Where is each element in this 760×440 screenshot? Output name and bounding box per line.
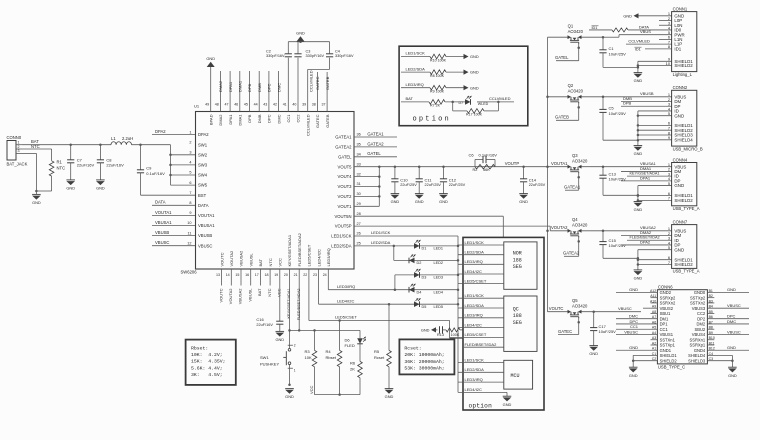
svg-text:GATEL: GATEL <box>367 151 381 156</box>
svg-text:C3: C3 <box>306 49 311 53</box>
wire CONN1 pin6 stub <box>659 38 672 40</box>
svg-text:GND: GND <box>727 345 736 350</box>
svg-text:DPA2: DPA2 <box>155 129 166 134</box>
svg-text:GND: GND <box>634 78 643 83</box>
wire CONN6 right pin B8 <box>707 328 714 330</box>
svg-text:DPA1: DPA1 <box>640 175 651 180</box>
wire CC1 pin41 to C2 <box>287 58 289 112</box>
wire FLED/BSET pin21 route <box>288 269 360 332</box>
ground GND below CONN6 right shields <box>728 367 737 378</box>
svg-text:22uF/25V: 22uF/25V <box>400 183 417 187</box>
svg-text:GATEC: GATEC <box>315 114 320 128</box>
svg-text:LED2/SDA: LED2/SDA <box>465 367 485 372</box>
capacitor C4 330pF/16V <box>326 42 354 58</box>
capacitor C12 22uF/25V <box>440 165 466 193</box>
svg-text:48: 48 <box>215 103 219 107</box>
svg-text:WLED: WLED <box>478 102 489 106</box>
node VCC below R3 <box>309 385 314 394</box>
svg-text:10uF/25V: 10uF/25V <box>609 111 627 116</box>
wire CONN6 right pin B1 <box>707 287 749 292</box>
svg-text:SHIELD2: SHIELD2 <box>660 358 678 363</box>
node DMA1 to CONN4 <box>621 166 672 172</box>
svg-text:14: 14 <box>226 273 230 277</box>
svg-text:22: 22 <box>303 273 307 277</box>
svg-text:DMC: DMC <box>727 319 736 324</box>
ground GND below C8 <box>96 180 105 191</box>
node DATA stub pin8 <box>152 200 196 206</box>
diode D4 LED4 <box>409 284 443 295</box>
ground GND below MCU block <box>503 396 512 407</box>
svg-text:D6: D6 <box>345 337 351 342</box>
svg-text:CONN6: CONN6 <box>658 285 673 290</box>
svg-text:22uF/25V: 22uF/25V <box>425 183 442 187</box>
svg-text:VOUTC: VOUTC <box>549 306 564 311</box>
wire CONN6 right pin B9 <box>707 329 749 334</box>
node FLED/BSET/ADA2 label below pin21 <box>297 289 301 321</box>
wire VOUT5N pin28 route <box>354 216 503 237</box>
svg-text:LED4/I2C: LED4/I2C <box>465 387 482 392</box>
ground flag LED1/SCK <box>464 54 479 59</box>
svg-text:VOUTC: VOUTC <box>219 252 224 266</box>
svg-text:GATEL: GATEL <box>555 55 569 60</box>
svg-text:31: 31 <box>357 182 361 186</box>
svg-text:LED4/I2C: LED4/I2C <box>316 249 321 266</box>
svg-text:D4: D4 <box>417 290 422 294</box>
svg-text:C2: C2 <box>266 49 271 53</box>
svg-text:D3: D3 <box>422 276 427 280</box>
node DPA1 to CONN4 <box>621 175 672 181</box>
svg-text:LED1/SCK: LED1/SCK <box>465 357 485 362</box>
svg-text:R9 100K: R9 100K <box>430 90 445 94</box>
svg-text:LED4/I2C: LED4/I2C <box>337 298 354 303</box>
node VOUTA2 <box>550 225 568 231</box>
node DPB to CONN2 <box>621 101 672 107</box>
svg-text:VBUSC: VBUSC <box>155 240 169 245</box>
svg-text:330pF/16V: 330pF/16V <box>266 54 285 58</box>
node GATEL stub pin34 <box>354 151 397 157</box>
node DPA1 stub top pin 47 <box>228 71 233 112</box>
connector CONN2 USB_MICRO_B <box>668 85 703 151</box>
wire CONN6 left pin A7 <box>616 314 657 319</box>
wire CONN6 right pin B7 <box>707 319 749 324</box>
svg-text:DP1: DP1 <box>660 322 669 327</box>
svg-text:GND: GND <box>519 199 528 204</box>
svg-text:8: 8 <box>189 201 191 205</box>
svg-text:LED2/SDA: LED2/SDA <box>406 66 426 71</box>
node VOUTA1 stub pin9 <box>152 210 196 216</box>
svg-text:VCC: VCC <box>277 288 282 297</box>
svg-text:5.6K: 4.4V;: 5.6K: 4.4V; <box>191 365 223 371</box>
svg-text:R7 2K: R7 2K <box>430 103 441 107</box>
svg-text:VBUSL: VBUSL <box>247 288 252 302</box>
ground GND below CONN0 <box>32 191 41 205</box>
resistor R1 NTC <box>49 160 65 192</box>
svg-text:GND: GND <box>470 85 479 90</box>
transistor Q1 AO3420 <box>548 24 584 44</box>
svg-text:3K: 4.5V;: 3K: 4.5V; <box>191 372 223 378</box>
node VBUSA1 stub pin10 <box>152 220 196 226</box>
svg-text:16: 16 <box>245 273 249 277</box>
svg-text:13: 13 <box>216 273 220 277</box>
svg-text:DPA1: DPA1 <box>228 81 233 92</box>
svg-text:FLED: FLED <box>345 343 355 348</box>
svg-text:C12: C12 <box>449 177 457 182</box>
svg-text:GATEA2: GATEA2 <box>367 141 384 146</box>
wire CONN6 right pin B4 <box>707 303 749 308</box>
wire option NOR LED2/SDA <box>458 250 504 255</box>
svg-text:VBUS1: VBUS1 <box>660 332 674 337</box>
svg-text:GND: GND <box>634 151 643 156</box>
wire CCLVMLED pin39 to C4 <box>308 58 330 112</box>
svg-text:2: 2 <box>189 140 191 144</box>
node NTC stub bottom pin 18 <box>267 269 272 297</box>
svg-text:GND: GND <box>634 276 643 281</box>
wire LED2/SDA pin25 <box>354 240 395 247</box>
svg-text:9: 9 <box>668 135 670 140</box>
svg-text:6: 6 <box>189 181 191 185</box>
svg-text:20K: 10000mAh;: 20K: 10000mAh; <box>404 352 444 358</box>
ground GND below SW1 <box>285 389 294 400</box>
svg-text:BST: BST <box>198 193 207 198</box>
svg-text:LED3/IRQ: LED3/IRQ <box>465 377 483 382</box>
option box 2 label <box>469 402 493 409</box>
svg-text:DM2: DM2 <box>697 322 706 327</box>
node VOUTC stub bottom pin 13 <box>218 269 223 303</box>
wire option NOR LED5/CSET <box>458 278 504 283</box>
svg-text:VBUS3: VBUS3 <box>692 306 706 311</box>
svg-text:10uF/25V: 10uF/25V <box>599 329 617 334</box>
svg-text:VBUSA2: VBUSA2 <box>238 288 243 305</box>
node VOUTP <box>505 161 520 166</box>
svg-text:R6: R6 <box>350 361 356 366</box>
connector CONN7 USB_TYPE_A <box>668 219 700 273</box>
svg-text:GND: GND <box>421 328 430 333</box>
svg-text:CC1: CC1 <box>630 324 639 329</box>
resistor R8 100K pulldown LED2/SDA <box>401 66 464 78</box>
svg-text:LED1: LED1 <box>434 247 444 251</box>
node BAT stub bottom pin 17 <box>257 269 262 296</box>
svg-text:LED3/IRQ: LED3/IRQ <box>406 82 424 87</box>
svg-text:LED2/SDA: LED2/SDA <box>371 240 391 245</box>
svg-text:DPC: DPC <box>267 83 272 92</box>
svg-text:QC: QC <box>513 306 519 312</box>
svg-text:7: 7 <box>668 196 670 201</box>
wire CONN6 left pin A4 <box>616 329 657 334</box>
svg-text:36K: 20000mAh;: 36K: 20000mAh; <box>404 359 444 365</box>
svg-text:NTC: NTC <box>57 166 66 171</box>
svg-text:AO3420: AO3420 <box>572 303 588 308</box>
svg-text:BPAD: BPAD <box>208 114 213 125</box>
wire BPAD pin49 to ground <box>210 67 212 112</box>
svg-text:VOUT4: VOUT4 <box>338 174 353 179</box>
wire option MCU LED2/SDA <box>458 367 504 372</box>
svg-text:D5: D5 <box>422 305 427 309</box>
ground GND above capacitor rail <box>296 30 305 41</box>
svg-text:CONN1: CONN1 <box>673 6 688 11</box>
svg-text:LED2/SDA: LED2/SDA <box>465 250 485 255</box>
svg-text:SHIELD4: SHIELD4 <box>674 137 693 142</box>
node DMB to CONN2 <box>621 96 672 102</box>
svg-text:GND0: GND0 <box>694 290 706 295</box>
svg-text:FLED/BSET/ADA2: FLED/BSET/ADA2 <box>297 232 302 266</box>
svg-text:25: 25 <box>357 242 361 246</box>
svg-text:GND: GND <box>96 186 105 191</box>
wire option NOR LED3/IRQ <box>458 259 504 264</box>
svg-text:3: 3 <box>189 151 191 155</box>
node VBUSA2 stub bottom pin 15 <box>238 269 243 304</box>
wire VBUS feed bus <box>546 37 549 312</box>
svg-text:40: 40 <box>292 103 296 107</box>
wire CONN6 left pin A3 <box>651 339 658 341</box>
ground GND above BPAD <box>206 56 215 67</box>
option box 2 frame <box>463 237 544 410</box>
svg-text:2: 2 <box>18 145 20 149</box>
ground flag CONN1 pin1 <box>623 13 671 18</box>
svg-text:VBUSL: VBUSL <box>248 253 253 267</box>
svg-text:5: 5 <box>668 181 670 186</box>
wire Q1 drain to CONN1 PWR <box>582 29 672 38</box>
svg-text:LED5/CSET: LED5/CSET <box>335 315 357 320</box>
svg-text:7: 7 <box>189 191 191 195</box>
svg-text:L1: L1 <box>111 136 116 141</box>
svg-text:BAT_JACK: BAT_JACK <box>7 161 28 166</box>
node VBUSL stub bottom pin 16 <box>247 269 252 302</box>
ground GND below CONN1 <box>634 73 643 84</box>
svg-text:37: 37 <box>322 103 326 107</box>
wire CONN2 ID GND shields to ground <box>637 111 672 146</box>
resistor R4 Rbset <box>326 321 342 395</box>
svg-text:SSRXp2: SSRXp2 <box>660 295 676 300</box>
ground GND below C12 <box>439 194 448 205</box>
node DMA2 stub top pin 48 <box>218 71 223 112</box>
wire LED3/IRQ pin24 route <box>328 269 396 291</box>
svg-text:option: option <box>413 116 451 124</box>
svg-text:C4: C4 <box>335 49 340 53</box>
svg-text:USB_TYPE_C: USB_TYPE_C <box>658 364 685 369</box>
svg-text:15K: 4.35V;: 15K: 4.35V; <box>191 359 226 365</box>
svg-text:10uF/25V: 10uF/25V <box>609 51 627 56</box>
svg-text:AO3420: AO3420 <box>568 88 584 93</box>
node FLED/BSET/IDA2 to CONN7 <box>627 236 672 241</box>
svg-text:44: 44 <box>254 103 258 107</box>
svg-text:CC1: CC1 <box>286 114 291 123</box>
svg-text:42: 42 <box>273 103 277 107</box>
svg-text:GATEA1: GATEA1 <box>367 131 384 136</box>
connector CONN0 BAT_JACK <box>7 135 28 166</box>
svg-text:VBUSC: VBUSC <box>727 329 741 334</box>
svg-text:49: 49 <box>205 103 209 107</box>
svg-text:DP2: DP2 <box>697 316 706 321</box>
svg-text:VBUSC: VBUSC <box>198 243 212 248</box>
wire option QC LED1/SCK <box>458 293 504 298</box>
block MCU <box>504 360 533 389</box>
svg-text:GND: GND <box>634 207 643 212</box>
resistor R10 100K pulldown LED1/SCK <box>401 51 464 63</box>
capacitor C13 10uF/25V <box>599 167 626 196</box>
ground flag LED3/IRQ <box>464 85 479 90</box>
svg-text:AO3420: AO3420 <box>572 158 588 163</box>
capacitor C5 10uF/25V <box>599 97 626 140</box>
node DPB stub top pin 45 <box>247 71 252 112</box>
svg-text:GND: GND <box>728 373 737 378</box>
ground GND below C16 <box>275 331 284 342</box>
svg-text:10K: 4.2V;: 10K: 4.2V; <box>191 352 223 358</box>
svg-text:GND: GND <box>296 30 305 35</box>
svg-text:BAT: BAT <box>258 258 263 266</box>
svg-text:U1: U1 <box>194 104 200 109</box>
node DPA2 stub pin1 <box>152 129 196 135</box>
wire Q5 drain VBUSC <box>582 306 642 313</box>
svg-text:19: 19 <box>274 273 278 277</box>
ground GND below CONN7 <box>634 270 643 281</box>
wire VOUT5P pin27 route <box>354 226 550 231</box>
svg-text:DMA2: DMA2 <box>218 80 223 92</box>
svg-text:0.1uF/16V: 0.1uF/16V <box>146 171 165 176</box>
svg-text:CONN2: CONN2 <box>673 85 688 90</box>
svg-text:DMA2: DMA2 <box>218 114 223 126</box>
svg-text:DPA2: DPA2 <box>198 132 209 137</box>
diode D3 LED3 <box>414 269 443 280</box>
svg-text:DM1: DM1 <box>660 316 669 321</box>
svg-text:LED2: LED2 <box>434 261 444 265</box>
svg-text:VOUTA1: VOUTA1 <box>198 213 215 218</box>
svg-text:Rbset: Rbset <box>326 355 337 360</box>
wire CONN6 left pin A2 <box>651 344 658 346</box>
node DMA2 to CONN7 <box>621 230 672 236</box>
svg-text:GND: GND <box>385 394 394 399</box>
svg-text:GND: GND <box>503 402 512 407</box>
svg-text:GATEB: GATEB <box>325 76 330 90</box>
svg-text:GATEB: GATEB <box>325 114 330 128</box>
node VOUTA1 on rail <box>551 161 568 166</box>
connector CONN6 USB_TYPE_C body <box>650 285 715 370</box>
svg-text:VBUS4: VBUS4 <box>692 332 706 337</box>
svg-text:ID1: ID1 <box>674 46 681 51</box>
svg-text:option: option <box>469 402 493 409</box>
wire D3 D4 left link <box>395 275 458 290</box>
svg-text:VOUT3: VOUT3 <box>338 184 353 189</box>
svg-text:SHIELD1: SHIELD1 <box>660 353 678 358</box>
svg-text:VOUTA2: VOUTA2 <box>551 225 568 230</box>
svg-text:SHIELD2: SHIELD2 <box>674 63 693 68</box>
svg-text:LED1/SCK: LED1/SCK <box>465 240 485 245</box>
node GATEB stub top pin37 <box>325 72 330 112</box>
svg-text:SW3: SW3 <box>198 163 208 168</box>
wire CONN6 left pin A1 <box>616 345 657 350</box>
ground GND below CONN4 <box>634 202 643 213</box>
wire CONN6 left pin A8 <box>651 312 658 314</box>
resistor R6 2K <box>350 361 362 395</box>
wire CONN6 left pin A10 <box>651 302 658 304</box>
svg-text:4: 4 <box>189 161 191 165</box>
node CCLVMLED in option box <box>489 96 511 101</box>
svg-text:10uF/25V: 10uF/25V <box>609 243 627 248</box>
svg-text:LED1/SCK: LED1/SCK <box>465 293 485 298</box>
wire VOUT1-4 bus pins 29-32 <box>354 165 381 206</box>
wire Q4 gate GATEA2 <box>563 236 580 256</box>
svg-text:GATEL: GATEL <box>338 154 352 159</box>
svg-text:PUSHKEY: PUSHKEY <box>260 362 279 367</box>
svg-text:VBUSB: VBUSB <box>155 230 169 235</box>
wire option NOR LED4/I2C <box>458 269 504 274</box>
svg-text:CCLVMLED: CCLVMLED <box>489 96 511 101</box>
svg-text:CC2: CC2 <box>296 114 301 123</box>
wire Q2 drain VBUSB to CONN2 <box>582 91 672 98</box>
svg-text:21: 21 <box>294 273 298 277</box>
capacitor C16 22uF/16V on VCC pin19 <box>256 269 283 331</box>
wire C13 to CONN4 ground <box>603 194 639 197</box>
svg-text:SW1: SW1 <box>260 355 269 360</box>
svg-text:SHIELD4: SHIELD4 <box>688 353 706 358</box>
connector CONN1 Lighting_L <box>666 6 697 76</box>
svg-text:DMC: DMC <box>276 114 281 123</box>
wire CONN6 right pin B6 <box>707 314 749 319</box>
connector CONN4 USB_TYPE_A <box>668 157 700 211</box>
svg-text:AO3420: AO3420 <box>568 29 584 34</box>
svg-text:SHIELD2: SHIELD2 <box>674 262 693 267</box>
svg-text:C10: C10 <box>400 177 408 182</box>
svg-text:22uF/25V: 22uF/25V <box>449 183 466 187</box>
svg-text:SW4: SW4 <box>198 173 208 178</box>
node VBUSB stub pin11 <box>152 230 196 236</box>
svg-text:LED4/I2C: LED4/I2C <box>465 269 482 274</box>
node VCC label below pin19 <box>277 288 282 297</box>
inductor L1 2.2uH <box>111 136 133 145</box>
svg-text:LED5/CSET: LED5/CSET <box>465 278 487 283</box>
wire option QC LED5/CSET <box>450 332 504 337</box>
svg-text:GATEB: GATEB <box>555 115 569 120</box>
svg-text:GATEC: GATEC <box>558 329 572 334</box>
wire C1 to shield ground <box>603 64 639 68</box>
svg-text:2: 2 <box>294 344 296 348</box>
wire D1 D2 left link <box>394 246 458 261</box>
svg-text:30: 30 <box>357 192 361 196</box>
capacitor C2 330pF/16V <box>266 42 292 58</box>
svg-text:DPB: DPB <box>247 114 252 123</box>
svg-text:VBUS2: VBUS2 <box>660 306 674 311</box>
wire Q3 gate GATEA1 <box>564 172 581 190</box>
wire Q5 gate GATEC <box>558 317 580 335</box>
svg-text:AO3420: AO3420 <box>572 222 588 227</box>
svg-text:R13: R13 <box>437 333 444 337</box>
svg-text:SSRXn2: SSRXn2 <box>660 301 676 306</box>
svg-text:32: 32 <box>357 172 361 176</box>
svg-text:VOUTC: VOUTC <box>218 288 223 302</box>
svg-text:GND: GND <box>623 13 632 18</box>
wire CONN6 right pin B12 <box>707 345 749 350</box>
svg-text:24: 24 <box>323 273 327 277</box>
svg-text:22uF/16V: 22uF/16V <box>106 163 124 168</box>
svg-text:LED5/CSET: LED5/CSET <box>307 244 312 266</box>
svg-text:VOUTP: VOUTP <box>505 161 520 166</box>
svg-text:CONN0: CONN0 <box>7 135 22 140</box>
resistor R2 56K <box>473 164 496 172</box>
resistor R3 10K <box>305 330 317 394</box>
svg-text:CCLVMLED: CCLVMLED <box>628 39 650 44</box>
svg-text:26: 26 <box>357 232 361 236</box>
svg-text:53K: 30000mAh;: 53K: 30000mAh; <box>404 365 444 371</box>
svg-text:ID1: ID1 <box>635 48 641 52</box>
svg-text:330pF/16V: 330pF/16V <box>335 54 354 58</box>
svg-text:GND: GND <box>470 70 479 75</box>
svg-text:LED5: LED5 <box>434 305 444 309</box>
svg-text:LED5/CSET: LED5/CSET <box>465 332 487 337</box>
svg-text:BAT: BAT <box>257 288 262 296</box>
svg-text:LED3: LED3 <box>434 276 444 280</box>
svg-text:LED4/I2C: LED4/I2C <box>465 322 482 327</box>
svg-text:C11: C11 <box>425 177 433 182</box>
capacitor C8 22uF/16V <box>97 143 124 179</box>
